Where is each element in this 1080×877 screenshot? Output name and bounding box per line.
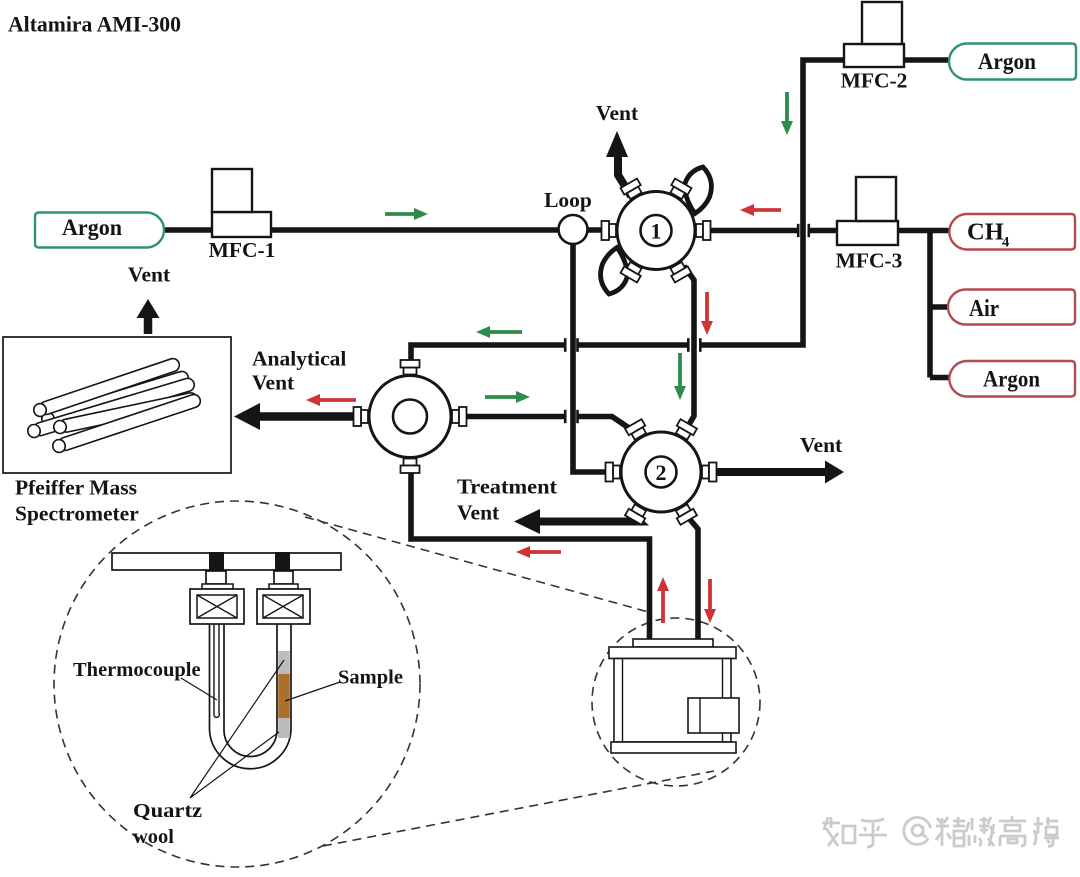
union ticks y=416 at loop riser bbox=[564, 410, 567, 423]
vent arrow to atmosphere above mass spec bbox=[137, 299, 160, 334]
magnifier dashed circle (sample zoom) bbox=[54, 501, 420, 867]
right neck bbox=[274, 571, 293, 584]
gas cylinder Air bbox=[948, 290, 1075, 325]
gas cylinder Argon (carrier, left) bbox=[35, 213, 164, 248]
furnace side box bbox=[688, 698, 739, 733]
wire: Argon cylinder to MFC-1 bbox=[163, 227, 214, 233]
union ticks y=345 at loop riser bbox=[576, 338, 579, 352]
valve 1 sample loop petal lower left bbox=[601, 248, 628, 295]
mass flow controller MFC-3 bbox=[837, 177, 898, 245]
wire: MFC-2 to Argon cylinder bbox=[902, 57, 950, 63]
analytical vent arrow into mass spec bbox=[234, 403, 367, 430]
svg-text:CH: CH bbox=[967, 219, 1004, 246]
red flow arrow left of MFC-3 bbox=[740, 204, 781, 216]
U-tube outline bbox=[210, 624, 292, 769]
treatment vent arrow bbox=[514, 509, 639, 534]
svg-text:MFC-3: MFC-3 bbox=[836, 249, 903, 273]
callout line lower bbox=[323, 771, 714, 846]
left neck bbox=[206, 571, 226, 584]
watermark 知乎 @精微高博 bbox=[822, 816, 1059, 847]
valve 1 port upper-left bbox=[621, 179, 645, 201]
green flow arrow on MFC-1 line bbox=[385, 208, 428, 220]
svg-text:Vent: Vent bbox=[252, 371, 295, 395]
quartz wool upper plug bbox=[278, 651, 290, 674]
mass spec tube 4 bbox=[53, 392, 199, 435]
4-port valve port left bbox=[354, 407, 369, 426]
valve 1 sample loop petal upper right bbox=[684, 167, 711, 214]
furnace top flange bbox=[609, 647, 736, 659]
right tube black mount bbox=[275, 552, 290, 571]
green flow arrow right of 4-port valve bbox=[485, 391, 530, 403]
green flow arrow down into valve 2 bbox=[674, 353, 686, 400]
wire: 4-port valve bottom port down, right, down into furnace left tube bbox=[411, 460, 650, 641]
right fitting box with X bbox=[257, 589, 310, 624]
4-port valve port top bbox=[401, 360, 420, 375]
mass flow controller MFC-1 bbox=[212, 169, 271, 237]
svg-text:Argon: Argon bbox=[62, 215, 122, 241]
wire: valve 1 bottom-right port down to valve 2 top-right port bbox=[684, 266, 694, 428]
vent arrow from valve 1 bbox=[606, 131, 631, 196]
svg-text:MFC-1: MFC-1 bbox=[209, 238, 276, 262]
svg-text:Analytical: Analytical bbox=[252, 347, 346, 371]
valve 2 port lower-right bbox=[673, 503, 697, 525]
red flow arrow on treatment line bbox=[516, 546, 561, 558]
svg-text:Argon: Argon bbox=[978, 49, 1036, 75]
mass spec tube 2 (rear) bbox=[40, 370, 190, 427]
wire: y=345 mid segment bbox=[579, 342, 688, 348]
valve 1 body bbox=[617, 192, 695, 270]
callout line upper bbox=[305, 517, 652, 613]
mass flow controller MFC-2 bbox=[844, 2, 904, 67]
valve 2 port upper-right bbox=[673, 419, 697, 441]
union ticks at MFC-2 line crossing bbox=[797, 224, 800, 237]
svg-text:Quartz: Quartz bbox=[133, 800, 202, 822]
mass spec tube 1 bbox=[32, 357, 181, 418]
valve 2 port lower-left bbox=[625, 503, 649, 525]
valve 2 port right bbox=[702, 463, 717, 482]
green flow arrow down MFC-2 riser bbox=[781, 92, 793, 135]
analytical 4-port valve body bbox=[369, 376, 451, 458]
sample holder top bar bbox=[112, 553, 341, 570]
valve 1 port left bbox=[602, 221, 617, 240]
furnace body bbox=[614, 659, 731, 743]
furnace bottom flange bbox=[611, 742, 736, 753]
wire: MFC-2 left, down, and left along y=345 to 4-port valve top bbox=[702, 60, 847, 345]
sample callout line bbox=[285, 682, 340, 701]
valve 1 port lower-left bbox=[621, 260, 645, 282]
svg-text:Loop: Loop bbox=[544, 188, 592, 212]
valve 2 body bbox=[621, 432, 701, 512]
svg-text:Sample: Sample bbox=[338, 667, 403, 689]
wire: union to MFC-3 to CH4 cylinder bbox=[810, 228, 950, 234]
wire: 4-port valve right port toward valve 2 bbox=[450, 414, 564, 420]
quartz wool lower plug bbox=[278, 718, 290, 738]
gas cylinder Argon (top right) bbox=[949, 44, 1076, 80]
red flow arrow below valve 1 bbox=[701, 292, 713, 335]
quartz wool callout lines bbox=[190, 660, 284, 798]
valve 1 port lower-right bbox=[668, 260, 692, 282]
thermocouple callout line bbox=[181, 678, 217, 700]
svg-text:Argon: Argon bbox=[983, 367, 1040, 393]
4-port valve centre circle bbox=[393, 400, 427, 434]
mass spec tube 3 bbox=[26, 377, 196, 439]
sample loop circle bbox=[559, 215, 588, 244]
red flow arrow down to furnace bbox=[704, 579, 716, 623]
mass spec tube 5 bbox=[51, 393, 202, 454]
Pfeiffer mass spectrometer box bbox=[3, 337, 231, 473]
left small flange bbox=[202, 584, 233, 589]
union ticks y=345 at valve1-valve2 riser bbox=[699, 338, 702, 352]
svg-text:Vent: Vent bbox=[800, 433, 843, 457]
valve 1 port right bbox=[696, 221, 711, 240]
left tube black mount bbox=[209, 552, 224, 571]
valve 2 port upper-left bbox=[625, 419, 649, 441]
svg-text:Altamira AMI-300: Altamira AMI-300 bbox=[8, 12, 181, 37]
gas cylinder Argon (bottom right) bbox=[949, 361, 1075, 397]
left fitting box with X bbox=[190, 589, 244, 624]
valve 2 port left bbox=[606, 463, 621, 482]
svg-text:1: 1 bbox=[651, 219, 662, 244]
gas cylinder CH4 bbox=[949, 214, 1075, 250]
thermocouple probe bbox=[214, 624, 219, 717]
4-port valve port right bbox=[452, 407, 467, 426]
wire: branch down to Air and Argon cylinders bbox=[930, 231, 950, 378]
svg-text:2: 2 bbox=[656, 460, 667, 485]
valve 1 label circle bbox=[641, 215, 672, 246]
svg-text:Spectrometer: Spectrometer bbox=[15, 502, 139, 526]
4-port valve port bottom bbox=[401, 459, 420, 474]
svg-text:MFC-2: MFC-2 bbox=[841, 69, 908, 93]
sample bed bbox=[278, 674, 290, 718]
green flow arrow left on y=345 line bbox=[476, 326, 522, 338]
svg-text:Vent: Vent bbox=[457, 501, 500, 525]
svg-text:Vent: Vent bbox=[128, 263, 171, 287]
svg-text:Air: Air bbox=[969, 295, 999, 322]
wire: y=416 to valve 2 top-left port bbox=[579, 417, 633, 431]
wire: valve 2 bottom-right port down into furnace right tube bbox=[687, 516, 698, 641]
valve 2 label circle bbox=[646, 457, 677, 488]
svg-text:wool: wool bbox=[133, 826, 174, 848]
svg-text:Pfeiffer Mass: Pfeiffer Mass bbox=[15, 476, 137, 500]
wire: loop circle down then right to valve 2 left port bbox=[573, 243, 610, 472]
vent arrow from valve 2 right port bbox=[712, 461, 844, 484]
svg-text:Treatment: Treatment bbox=[457, 475, 558, 499]
red flow arrow on analytical vent bbox=[306, 394, 356, 406]
wire: valve 1 right port to union bbox=[708, 228, 797, 234]
right small flange bbox=[269, 584, 298, 589]
furnace top plate bbox=[633, 639, 713, 647]
wire: y=345 left segment, elbow down to 4-port valve top port bbox=[411, 345, 564, 370]
svg-text:4: 4 bbox=[1002, 235, 1009, 251]
furnace dashed circle bbox=[592, 618, 760, 786]
svg-text:Vent: Vent bbox=[596, 101, 639, 125]
valve 1 port upper-right bbox=[668, 179, 692, 201]
red flow arrow up from furnace bbox=[657, 577, 669, 623]
wire: MFC-1 to valve 1 left port bbox=[269, 227, 604, 233]
